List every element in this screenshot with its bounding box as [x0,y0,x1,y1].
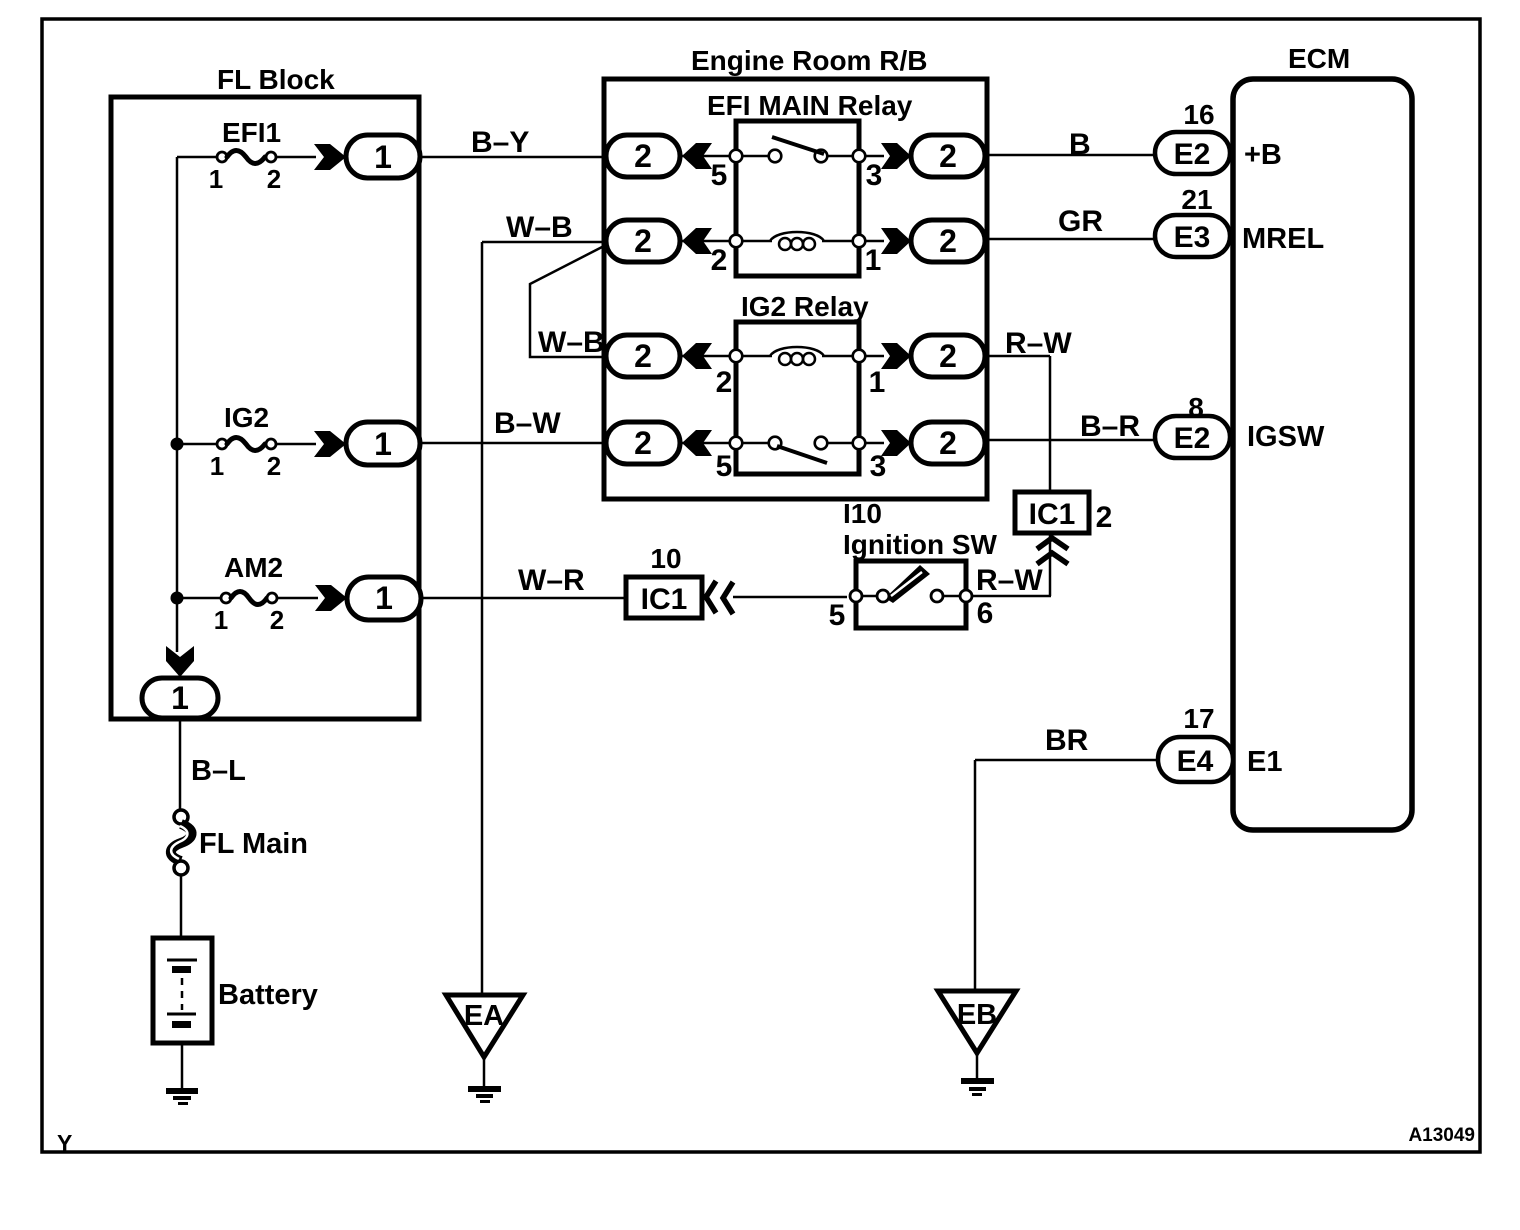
svg-text:1: 1 [869,366,886,399]
svg-text:BR: BR [1045,724,1089,757]
svg-text:3: 3 [866,159,883,192]
svg-text:5: 5 [829,599,846,632]
svg-text:IC1: IC1 [641,583,688,616]
svg-text:2: 2 [634,223,652,259]
svg-text:Ignition SW: Ignition SW [843,529,998,560]
svg-text:21: 21 [1181,184,1212,215]
svg-text:2: 2 [267,164,281,194]
svg-text:B–Y: B–Y [471,126,529,159]
svg-text:EB: EB [957,999,997,1031]
svg-text:I10: I10 [843,498,882,529]
svg-text:2: 2 [634,338,652,374]
svg-text:5: 5 [716,450,733,483]
svg-text:1: 1 [209,164,223,194]
svg-text:2: 2 [267,451,281,481]
svg-text:+B: +B [1244,139,1282,171]
svg-text:FL Main: FL Main [199,828,308,860]
svg-text:2: 2 [716,366,733,399]
svg-text:IG2 Relay: IG2 Relay [741,291,869,322]
svg-text:Y: Y [57,1130,72,1156]
svg-text:GR: GR [1058,205,1103,238]
svg-text:R–W: R–W [976,564,1043,597]
svg-text:17: 17 [1183,703,1214,734]
svg-text:E2: E2 [1174,138,1211,171]
svg-text:E1: E1 [1247,746,1282,778]
svg-text:2: 2 [939,223,957,259]
svg-text:3: 3 [870,450,887,483]
svg-text:6: 6 [977,597,994,630]
svg-text:FL Block: FL Block [217,64,335,95]
svg-text:B–W: B–W [494,407,561,440]
svg-text:1: 1 [375,580,393,616]
svg-text:1: 1 [210,451,224,481]
svg-text:16: 16 [1183,99,1214,130]
svg-text:E3: E3 [1174,221,1211,254]
svg-text:B–L: B–L [191,755,246,787]
svg-text:EFI MAIN Relay: EFI MAIN Relay [707,90,913,121]
svg-text:W–R: W–R [518,564,585,597]
svg-text:Engine Room R/B: Engine Room R/B [691,45,927,76]
svg-text:2: 2 [270,605,284,635]
svg-text:5: 5 [711,159,728,192]
svg-text:10: 10 [650,543,681,574]
svg-text:IG2: IG2 [224,402,269,433]
svg-text:1: 1 [171,680,189,716]
svg-text:2: 2 [1096,501,1113,534]
svg-text:E4: E4 [1177,745,1214,778]
svg-text:IC1: IC1 [1029,498,1076,531]
svg-text:2: 2 [711,244,728,277]
svg-text:EFI1: EFI1 [222,117,281,148]
svg-text:B–R: B–R [1080,410,1140,443]
svg-text:1: 1 [374,426,392,462]
svg-text:2: 2 [939,338,957,374]
svg-text:2: 2 [634,425,652,461]
svg-text:2: 2 [634,138,652,174]
svg-text:W–B: W–B [506,211,573,244]
svg-text:1: 1 [865,244,882,277]
svg-text:2: 2 [939,425,957,461]
svg-text:A13049: A13049 [1408,1125,1475,1146]
svg-text:E2: E2 [1174,422,1211,455]
svg-text:1: 1 [374,139,392,175]
svg-text:R–W: R–W [1005,327,1072,360]
svg-text:2: 2 [939,138,957,174]
svg-text:ECM: ECM [1288,43,1350,74]
svg-text:Battery: Battery [218,979,318,1011]
svg-text:B: B [1069,128,1091,161]
svg-text:W–B: W–B [538,326,605,359]
svg-text:1: 1 [214,605,228,635]
svg-text:AM2: AM2 [224,552,283,583]
svg-text:IGSW: IGSW [1247,421,1325,453]
svg-text:MREL: MREL [1242,223,1324,255]
svg-text:EA: EA [464,1000,504,1032]
